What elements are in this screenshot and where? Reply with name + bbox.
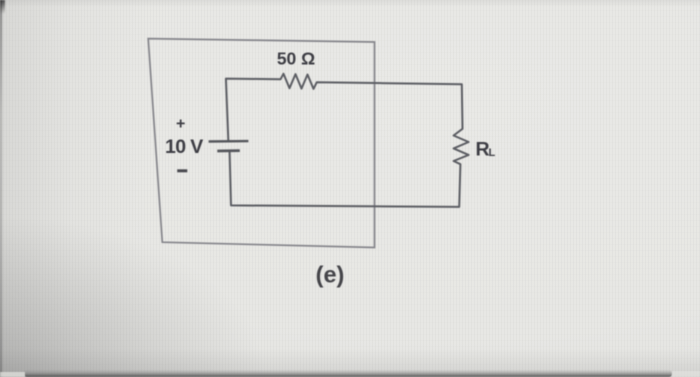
svg-text:(e): (e): [316, 262, 345, 288]
svg-text:50 Ω: 50 Ω: [277, 49, 315, 69]
svg-text:+: +: [176, 116, 185, 133]
svg-text:L: L: [489, 147, 496, 159]
svg-text:10 V: 10 V: [165, 136, 203, 158]
svg-text:R: R: [476, 138, 490, 160]
